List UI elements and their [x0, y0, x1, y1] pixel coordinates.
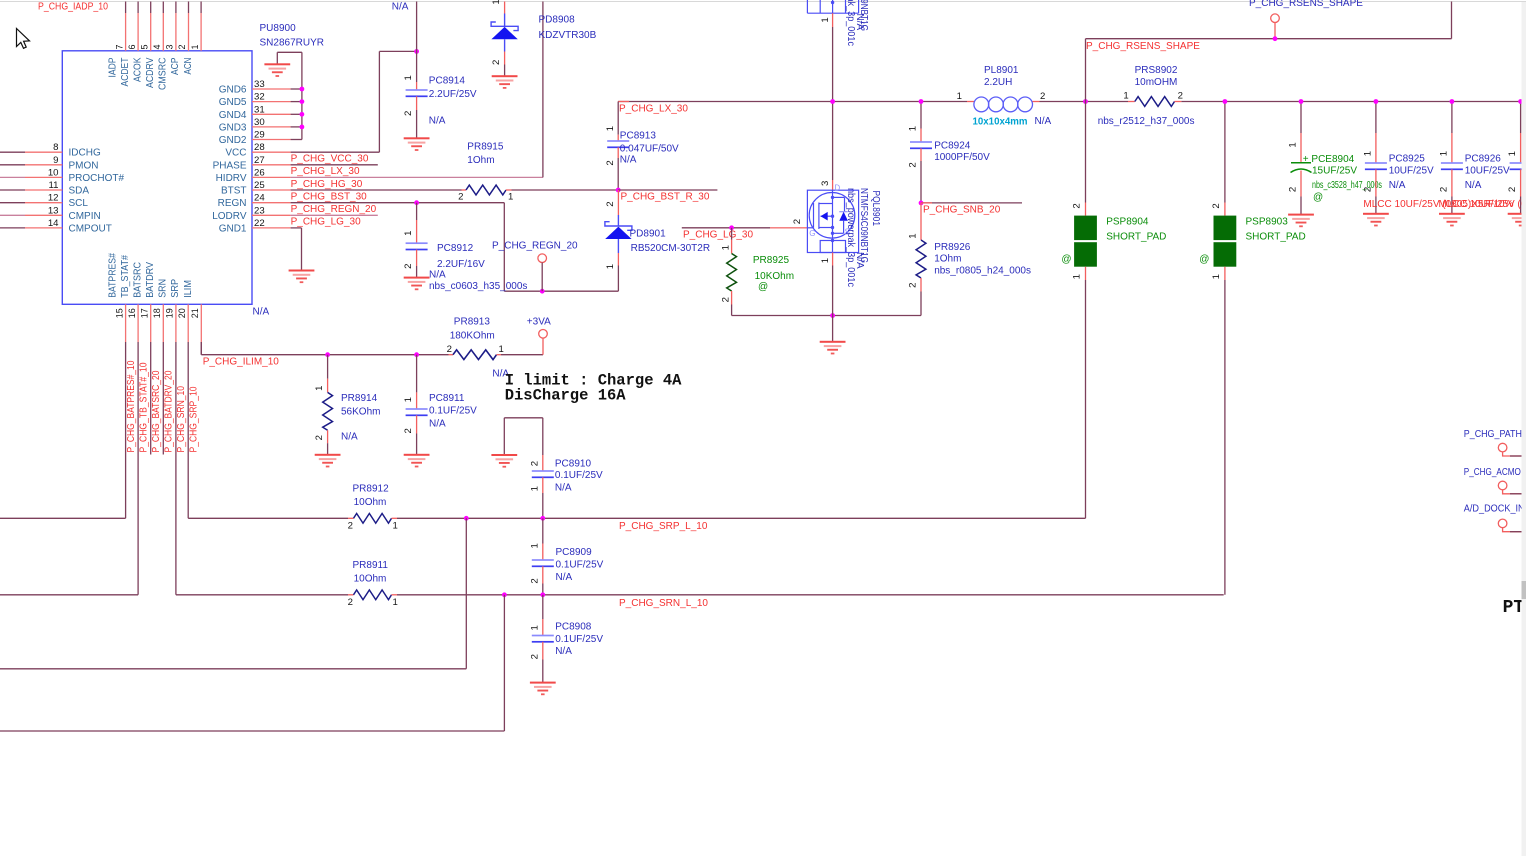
wire SRN row after PR8911	[397, 594, 1224, 596]
svg-text:1: 1	[499, 344, 504, 355]
svg-text:10UF/25V: 10UF/25V	[1465, 166, 1510, 177]
junction on GND bus pin 33	[300, 87, 305, 92]
wire pin 7 net stub (top)	[125, 2, 127, 14]
junction REGN at PC8912	[414, 200, 419, 205]
junction rail at PCE8904	[1299, 99, 1304, 104]
wire SRP row after PR8912	[397, 517, 1086, 519]
pin 19 stub of U PU8900	[175, 304, 177, 342]
junction rail at PSP8904 riser	[1083, 99, 1088, 104]
svg-text:10mOHM: 10mOHM	[1135, 77, 1178, 88]
capacitor PC8926 10UF/25V	[1441, 162, 1463, 170]
svg-text:RB520CM-30T2R: RB520CM-30T2R	[631, 243, 710, 254]
wire PSP8904 down to SRP corner	[1085, 280, 1087, 518]
svg-text:KDZVTR30B: KDZVTR30B	[539, 30, 597, 41]
port +3VA stub	[542, 338, 544, 355]
svg-text:4: 4	[152, 44, 162, 49]
wire to left edge row pin 11	[0, 189, 25, 191]
wire bottom row 2 from left edge	[0, 730, 504, 732]
pad PSP8903 bottom stub	[1224, 267, 1226, 280]
svg-text:PU8900: PU8900	[260, 23, 297, 34]
inductor PL8901 right stub	[1033, 101, 1040, 103]
svg-text:PR8911: PR8911	[353, 560, 389, 571]
svg-text:ACDET: ACDET	[120, 58, 131, 87]
pad PSP8904 bottom stub	[1085, 267, 1087, 280]
svg-text:CMPOUT: CMPOUT	[69, 223, 112, 234]
svg-text:P_CHG_PATH_L: P_CHG_PATH_L	[1464, 429, 1526, 440]
wire riser from bottom row to SRP	[465, 518, 467, 669]
pin 20 stub of U PU8900	[187, 304, 189, 342]
svg-text:1: 1	[403, 230, 414, 235]
wire GND bus drop to ground	[276, 52, 278, 64]
wire PR8925 top	[731, 228, 733, 240]
wire rail down to PC8924	[920, 102, 922, 129]
pin 29 stub of U PU8900	[252, 139, 291, 141]
svg-text:28: 28	[254, 142, 265, 153]
svg-text:P_CHG_LX_30: P_CHG_LX_30	[619, 104, 688, 115]
svg-text:N/A: N/A	[253, 307, 270, 318]
svg-text:N/A: N/A	[1035, 116, 1052, 127]
svg-text:2: 2	[529, 654, 540, 659]
svg-text:2.2UH: 2.2UH	[984, 77, 1012, 88]
svg-text:PC8914: PC8914	[429, 75, 466, 86]
wire to left edge row pin 13	[0, 214, 25, 216]
junction SRP at lower-left riser	[464, 516, 469, 521]
wire SRN row	[176, 594, 348, 596]
svg-text:SN2867RUYR: SN2867RUYR	[260, 38, 324, 49]
wire BTST pin 25 to PR8915	[291, 189, 462, 191]
wire GND pin 32 to bus	[291, 101, 302, 103]
svg-text:GND2: GND2	[219, 135, 247, 146]
wire top edge down to PC8914	[416, 2, 418, 83]
wire bottom row 1 from left edge	[0, 668, 466, 670]
wire PR8914 to ground	[327, 443, 329, 455]
svg-text:3: 3	[820, 181, 831, 186]
pin 1 stub of U PU8900	[200, 13, 202, 51]
wire GND1 drop	[301, 228, 303, 271]
svg-text:@: @	[758, 281, 768, 292]
wire pin 6 net stub (top)	[137, 2, 139, 14]
wire P_CHG_LG_30 gate net	[682, 227, 770, 229]
wire pin 15 tail to SRP-left row	[125, 342, 127, 518]
wire PC8910 ground drop	[503, 418, 505, 455]
svg-text:+ PCE8904: + PCE8904	[1303, 154, 1355, 165]
svg-text:P_CHG_BST_R_30: P_CHG_BST_R_30	[621, 192, 710, 203]
svg-text:PR8926: PR8926	[934, 242, 971, 253]
wire PQH8901 source to rail	[832, 27, 834, 102]
resistor PR8912 left stub	[348, 517, 354, 519]
resistor PRS8902 10mOHM	[1135, 97, 1175, 107]
svg-text:9: 9	[53, 155, 58, 166]
wire VCC vertical riser	[378, 51, 380, 152]
wire rail down to PC8926	[1451, 102, 1453, 134]
wire PR8925 bottom corner	[731, 305, 733, 316]
resistor PR8914 top stub	[327, 379, 329, 393]
svg-text:2: 2	[491, 60, 502, 65]
svg-text:BTST: BTST	[221, 186, 247, 197]
svg-text:PR8925: PR8925	[753, 255, 790, 266]
capacitor PC8913 bottom stub	[617, 147, 619, 158]
wire PSP8903 down to SRN corner	[1224, 280, 1226, 595]
junction on GND bus pin 32	[300, 99, 305, 104]
svg-text:P_CHG_BATPRES#_10: P_CHG_BATPRES#_10	[126, 360, 137, 452]
wire VCC pin 28 horizontal	[291, 151, 380, 153]
junction rail at PC8924	[919, 99, 924, 104]
capacitor PC8908 top wire	[542, 595, 544, 619]
svg-text:P_CHG_RSENS_SHAPE: P_CHG_RSENS_SHAPE	[1086, 41, 1200, 52]
wire pin 1 net stub (top)	[200, 2, 202, 14]
svg-text:15UF/25V: 15UF/25V	[1312, 166, 1357, 177]
wire GND bus vertical	[301, 52, 303, 139]
svg-text:2: 2	[1439, 187, 1450, 192]
pin 13 stub of U PU8900	[25, 214, 62, 216]
wire VCC top horizontal to PC8914	[379, 50, 416, 52]
junction VCC at PC8914	[414, 49, 419, 54]
svg-text:P_CHG_LG_30: P_CHG_LG_30	[683, 230, 753, 241]
wire PHASE pin 27 dangling	[291, 164, 378, 166]
wire SRP row	[188, 517, 348, 519]
svg-text:ACP: ACP	[170, 57, 181, 75]
svg-text:30: 30	[254, 117, 265, 128]
svg-text:10x10x4mm: 10x10x4mm	[973, 116, 1028, 127]
svg-text:1: 1	[908, 233, 919, 238]
wire GND1 pin 22 horizontal	[291, 227, 302, 229]
svg-text:7: 7	[114, 44, 124, 49]
port P_CHG_ACMON wire to edge	[1510, 493, 1522, 495]
diode PD8901 bottom lead	[617, 239, 619, 253]
diode PD8908 bottom lead	[504, 39, 506, 51]
pin 23 stub of U PU8900	[252, 214, 291, 216]
wire to left edge row pin 8	[0, 151, 25, 153]
svg-text:MLCC 10UF/25V (0805)X5R/10%: MLCC 10UF/25V (0805)X5R/10%	[1439, 199, 1526, 210]
resistor PR8911 10Ohm	[354, 590, 392, 600]
svg-text:2: 2	[1507, 187, 1518, 192]
svg-text:PQL8901: PQL8901	[870, 191, 881, 227]
resistor PR8914 top wire	[327, 355, 329, 379]
svg-text:PR8914: PR8914	[341, 393, 378, 404]
wire PC8911 to ground	[416, 434, 418, 455]
svg-text:GND1: GND1	[219, 223, 247, 234]
svg-text:1: 1	[1123, 90, 1128, 101]
svg-text:1000PF/50V: 1000PF/50V	[934, 152, 990, 163]
svg-text:IDCHG: IDCHG	[69, 148, 101, 159]
capacitor PC8912 top stub	[416, 220, 418, 243]
resistor PR8913 right stub	[497, 354, 502, 356]
svg-text:BATPRES#: BATPRES#	[107, 253, 118, 298]
wire PQL8901 source to bus and ground	[832, 266, 834, 342]
svg-text:@: @	[1061, 254, 1071, 265]
resistor PR8911 left stub	[348, 594, 354, 596]
capacitor PC8909 bottom stub	[542, 566, 544, 583]
diode PD8901 top lead	[617, 215, 619, 226]
capacitor PC8908 0.1UF/25V	[532, 635, 554, 643]
svg-text:SHORT_PAD: SHORT_PAD	[1106, 232, 1166, 243]
svg-text:P_CHG_BATSRC_20: P_CHG_BATSRC_20	[151, 370, 162, 452]
wire PD8908 to ground	[504, 65, 506, 77]
pin 28 stub of U PU8900	[252, 151, 291, 153]
svg-text:25: 25	[254, 180, 265, 191]
transistor PQL8901 drain pin stub	[832, 180, 834, 190]
wire rail segment after inductor	[1040, 101, 1129, 103]
port A/D_DOCK_IN_L stub	[1503, 528, 1522, 532]
svg-text:N/A: N/A	[854, 252, 865, 269]
svg-text:PSP8903: PSP8903	[1246, 217, 1289, 228]
svg-text:PMON: PMON	[69, 160, 99, 171]
pin 14 stub of U PU8900	[25, 227, 62, 229]
svg-text:G: G	[809, 229, 815, 238]
svg-text:SRP: SRP	[170, 279, 181, 298]
svg-text:PL8901: PL8901	[984, 65, 1019, 76]
junction source bus	[830, 313, 835, 318]
capacitor PC8925 10UF/25V	[1365, 162, 1387, 170]
svg-text:N/A: N/A	[555, 482, 572, 493]
wire RSENS left riser	[1085, 39, 1087, 102]
svg-text:2: 2	[403, 428, 414, 433]
port P_CHG_ACMON stub	[1503, 490, 1522, 494]
wire LX pin 26 horizontal	[291, 176, 543, 178]
svg-text:PC8925: PC8925	[1389, 153, 1426, 164]
svg-text:1: 1	[393, 520, 398, 531]
wire SNB red segment	[921, 202, 932, 204]
svg-text:ACN: ACN	[183, 58, 194, 75]
svg-text:PC8908: PC8908	[555, 621, 592, 632]
junction rail at PSP8903 riser	[1223, 99, 1228, 104]
svg-text:1: 1	[403, 75, 414, 80]
junction rail at PC8926	[1450, 99, 1455, 104]
svg-text:2: 2	[348, 597, 353, 608]
pin 24 stub of U PU8900	[252, 202, 291, 204]
capacitor PC8926 bottom stub	[1451, 169, 1453, 196]
capacitor PC8913 top stub	[617, 135, 619, 141]
svg-text:+3VA: +3VA	[527, 317, 551, 328]
capacitor PC8909 top wire	[542, 518, 544, 543]
svg-text:@: @	[1199, 254, 1209, 265]
svg-text:2: 2	[529, 461, 540, 466]
svg-text:1: 1	[508, 191, 513, 202]
svg-text:0.1UF/25V: 0.1UF/25V	[556, 560, 604, 571]
svg-text:P_CHG_HG_30: P_CHG_HG_30	[291, 179, 363, 190]
svg-text:2: 2	[314, 435, 325, 440]
resistor PR8925 bottom stub	[731, 291, 733, 305]
svg-text:27: 27	[254, 155, 265, 166]
wire ILIM horizontal	[201, 354, 448, 356]
junction ILIM at PR8914	[325, 352, 330, 357]
capacitor PC8909 top stub	[542, 544, 544, 561]
svg-text:1: 1	[393, 597, 398, 608]
svg-text:1: 1	[1363, 151, 1374, 156]
diode PD8901 bottom stub	[617, 253, 619, 266]
svg-text:6: 6	[127, 44, 137, 49]
wire to left edge row pin 10	[0, 176, 25, 178]
svg-text:22: 22	[254, 218, 265, 229]
port P_CHG_REGN_20 circle	[538, 254, 547, 263]
wire PC8910 to SRP	[542, 493, 544, 518]
svg-text:26: 26	[254, 167, 265, 178]
svg-text:P_CHG_REGN_20: P_CHG_REGN_20	[291, 204, 377, 215]
wire LODRV pin 23 dangling	[291, 214, 378, 216]
svg-text:P_CHG_RSENS_SHAPE: P_CHG_RSENS_SHAPE	[1249, 0, 1363, 9]
svg-text:P_CHG_ACMON: P_CHG_ACMON	[1464, 467, 1526, 478]
wire LX corner vertical to PC8913	[617, 102, 619, 135]
capacitor PC8913 0.047UF/50V	[607, 140, 629, 148]
svg-text:P_CHG_BATDRV_20: P_CHG_BATDRV_20	[164, 370, 175, 452]
wire REGN down to PC8912	[416, 203, 418, 220]
svg-text:CMPIN: CMPIN	[69, 211, 101, 222]
capacitor PC8911 top stub	[416, 392, 418, 409]
transistor PQH8901 partial body at top edge	[807, 0, 858, 13]
wire pin 3 net stub (top)	[175, 2, 177, 14]
pin 10 stub of U PU8900	[25, 176, 62, 178]
scrollbar track	[1522, 2, 1526, 856]
svg-text:2.2UF/25V: 2.2UF/25V	[429, 89, 477, 100]
svg-text:nbs_r0805_h24_000s: nbs_r0805_h24_000s	[934, 266, 1031, 277]
pin 6 stub of U PU8900	[137, 13, 139, 51]
svg-text:N/A: N/A	[429, 269, 446, 280]
svg-text:GND3: GND3	[219, 122, 247, 133]
pin 2 stub of U PU8900	[188, 13, 190, 51]
wire pin 4 net stub (top)	[162, 2, 164, 14]
junction on GND bus pin 30	[300, 125, 305, 130]
wire GND pin 31 to bus	[291, 113, 302, 115]
pin 31 stub of U PU8900	[252, 113, 291, 115]
svg-text:P_CHG_REGN_20: P_CHG_REGN_20	[492, 241, 578, 252]
wire BST_R stub to right	[618, 189, 717, 191]
pin 9 stub of U PU8900	[25, 164, 62, 166]
capacitor PCE8904 bottom stub	[1300, 171, 1302, 197]
svg-text:56KOhm: 56KOhm	[341, 406, 380, 417]
pin 25 stub of U PU8900	[252, 189, 291, 191]
port A/D_DOCK_IN_L circle	[1498, 519, 1507, 528]
svg-text:N/A: N/A	[854, 14, 865, 31]
wire LX vertical riser to top edge	[542, 2, 544, 178]
wire pin 18 tail dangling	[162, 342, 164, 455]
svg-text:N/A: N/A	[341, 432, 358, 443]
svg-text:PHASE: PHASE	[213, 160, 247, 171]
ground under PC8926	[1439, 213, 1465, 227]
wire PC8910 top horizontal	[504, 417, 543, 419]
svg-text:P_CHG_LG_30: P_CHG_LG_30	[291, 217, 361, 228]
svg-text:15: 15	[114, 308, 124, 318]
svg-text:2: 2	[792, 219, 803, 224]
resistor PR8914 56KOhm	[323, 392, 333, 430]
svg-text:N/A: N/A	[1465, 180, 1482, 191]
svg-text:N/A: N/A	[1389, 180, 1406, 191]
capacitor PC8911 top wire	[416, 355, 418, 393]
capacitor PC8908 top stub	[542, 619, 544, 636]
port P_CHG_PATH_L stub	[1503, 452, 1522, 456]
svg-text:1: 1	[403, 397, 414, 402]
svg-text:VCC: VCC	[225, 148, 246, 159]
pin 15 stub of U PU8900	[125, 304, 127, 342]
wire PC8910 top vertical	[542, 418, 544, 455]
svg-text:19: 19	[165, 308, 175, 318]
wire PR8915 to BST junction	[512, 189, 619, 191]
inductor PL8901 left stub	[967, 101, 974, 103]
svg-text:2: 2	[177, 44, 187, 49]
wire pin 5 net stub (top)	[150, 2, 152, 14]
svg-text:33: 33	[254, 79, 265, 90]
svg-text:2: 2	[1211, 203, 1222, 208]
port P_CHG_PATH_L circle	[1498, 443, 1507, 452]
wire GND bus top horizontal	[277, 51, 302, 53]
wire pin 2 net stub (top)	[188, 2, 190, 14]
svg-text:1: 1	[820, 258, 831, 263]
svg-text:P_CHG_SRN_10: P_CHG_SRN_10	[176, 386, 187, 453]
wire PC8912 to ground	[416, 266, 418, 278]
capacitor PC8925 bottom stub	[1375, 169, 1377, 196]
svg-text:13: 13	[48, 205, 59, 216]
svg-text:2: 2	[447, 344, 452, 355]
pad PSP8904 SHORT_PAD squares	[1074, 216, 1097, 267]
wire pin 17 tail dangling	[150, 342, 152, 455]
svg-text:1: 1	[605, 264, 616, 269]
svg-text:1: 1	[1211, 274, 1222, 279]
svg-text:P_CHG_SRP_L_10: P_CHG_SRP_L_10	[619, 521, 708, 532]
pin 4 stub of U PU8900	[162, 13, 164, 51]
ground under PC8914	[404, 137, 430, 151]
resistor PR8915 1Ohm	[466, 185, 506, 195]
wire rail red segment at left corner	[618, 101, 629, 103]
svg-text:10: 10	[48, 167, 59, 178]
svg-text:12: 12	[48, 193, 59, 204]
wire PC8908 to ground	[542, 660, 544, 683]
gate pin stub of PQL8901	[770, 227, 807, 229]
svg-text:A/D_DOCK_IN_L: A/D_DOCK_IN_L	[1464, 504, 1526, 515]
wire left edge row to pin 15	[0, 517, 126, 519]
wire rail down to PSP8903	[1224, 102, 1226, 203]
svg-text:P_CHG_BST_30: P_CHG_BST_30	[291, 192, 368, 203]
resistor PR8913 left stub	[449, 354, 454, 356]
svg-text:3: 3	[165, 44, 175, 49]
svg-text:20: 20	[177, 308, 187, 318]
svg-text:2: 2	[1363, 187, 1374, 192]
capacitor PC8924 bottom stub	[920, 148, 922, 161]
svg-text:nbs_c0603_h35_000s: nbs_c0603_h35_000s	[429, 281, 527, 292]
capacitor PC8924 top stub	[920, 129, 922, 143]
junction RSENS at port	[1273, 36, 1278, 41]
pin 22 stub of U PU8900	[252, 227, 291, 229]
svg-text:PC8924: PC8924	[934, 141, 971, 152]
svg-text:2: 2	[605, 201, 616, 206]
resistor PR8926 top stub	[920, 203, 922, 240]
svg-text:180KOhm: 180KOhm	[450, 331, 495, 342]
svg-text:2: 2	[1288, 187, 1299, 192]
svg-text:10Ohm: 10Ohm	[354, 497, 387, 508]
junction BST node	[616, 188, 621, 193]
capacitor PC8912 2.2UF/16V	[406, 242, 428, 250]
svg-text:LODRV: LODRV	[212, 211, 247, 222]
resistor PR8911 right stub	[392, 594, 398, 596]
svg-text:SRN: SRN	[158, 279, 169, 298]
transistor PQL8901 drain wire from rail	[832, 102, 834, 181]
svg-text:PR8913: PR8913	[454, 317, 491, 328]
wire ILIM corner from pin 21	[200, 342, 202, 355]
svg-text:1: 1	[1288, 142, 1299, 147]
pin 7 stub of U PU8900	[125, 13, 127, 51]
wire pin 16 tail to SRN-left row	[137, 342, 139, 595]
svg-text:P_CHG_LX_30: P_CHG_LX_30	[291, 166, 360, 177]
resistor PRS8902 right stub	[1175, 101, 1182, 103]
pin 33 stub of U PU8900	[252, 88, 291, 90]
svg-text:2: 2	[1178, 90, 1183, 101]
mouse cursor	[17, 29, 30, 49]
wire riser from bottom row to SRN	[503, 595, 505, 731]
port A/D_DOCK_IN_L wire to edge	[1510, 531, 1522, 533]
pin 26 stub of U PU8900	[252, 176, 291, 178]
svg-text:21: 21	[190, 308, 200, 318]
svg-text:1: 1	[529, 486, 540, 491]
wire to left edge row pin 12	[0, 202, 25, 204]
wire REGN bottom horizontal	[504, 290, 618, 292]
